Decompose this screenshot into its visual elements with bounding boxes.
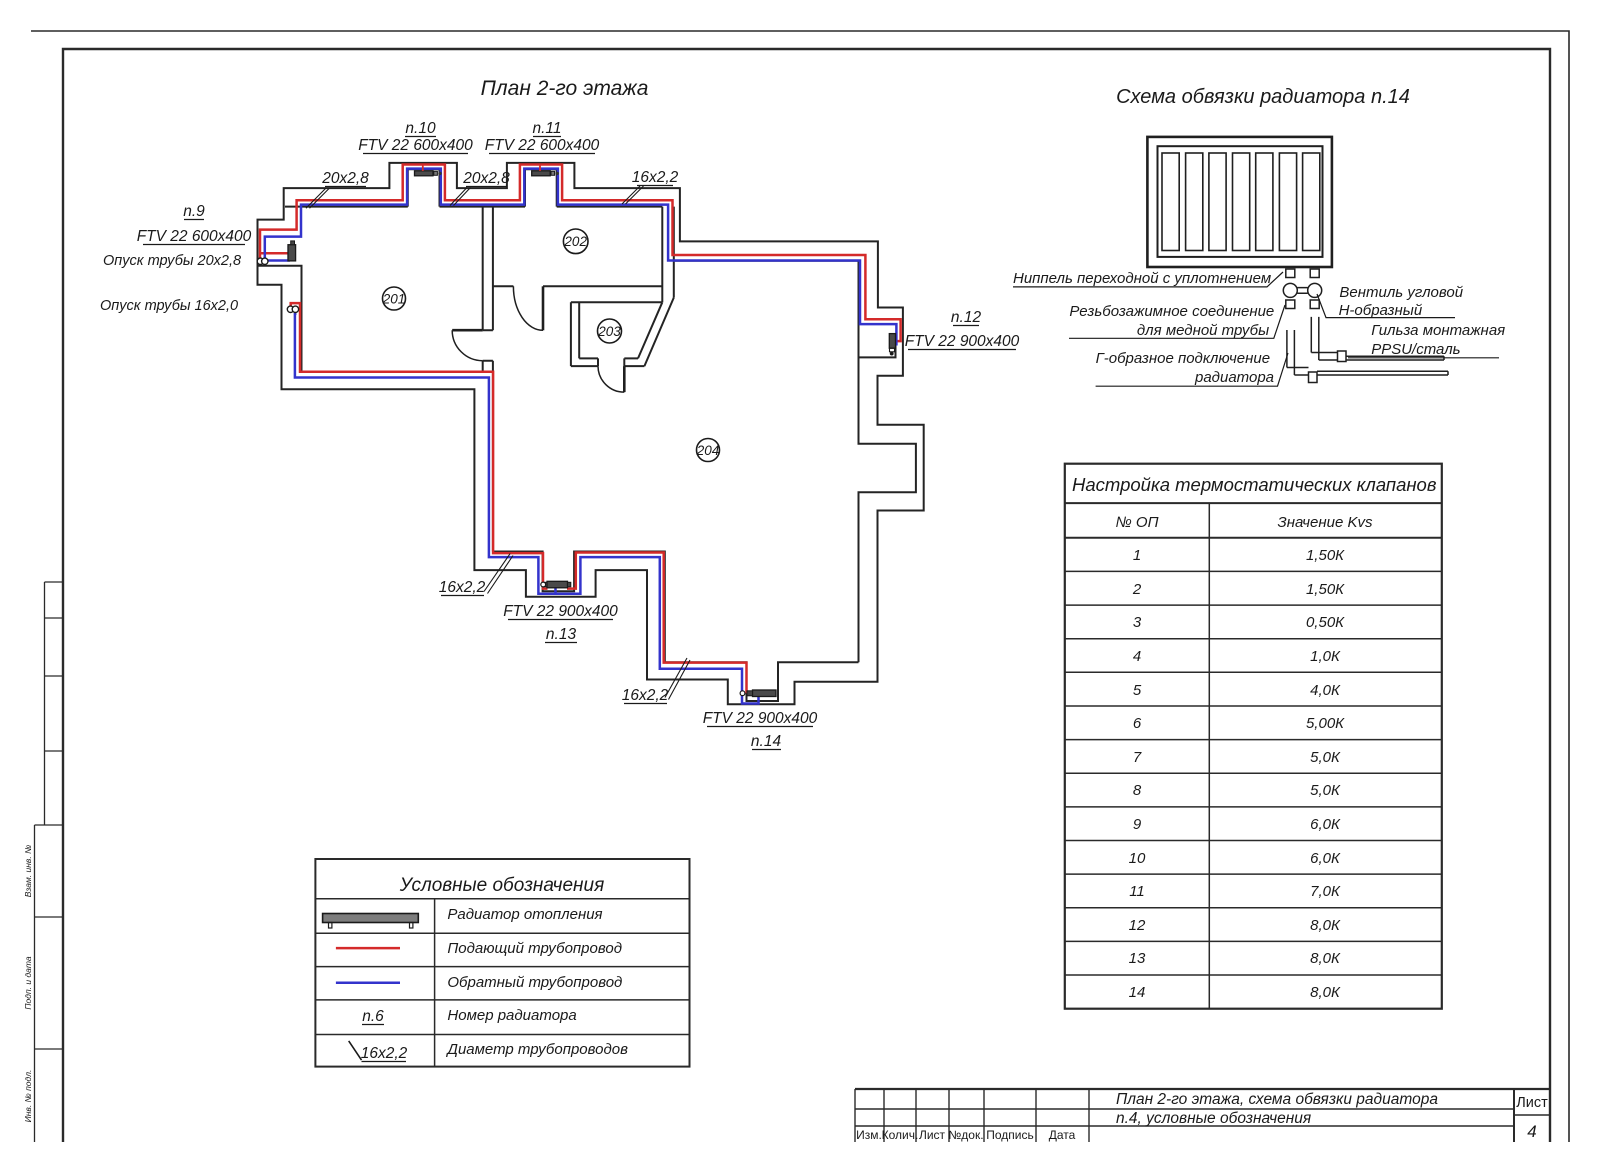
svg-text:203: 203	[597, 324, 621, 339]
svg-text:1,0К: 1,0К	[1310, 648, 1341, 665]
svg-text:8: 8	[1133, 782, 1142, 799]
svg-text:201: 201	[382, 291, 406, 306]
svg-text:204: 204	[696, 443, 720, 458]
svg-text:Номер радиатора: Номер радиатора	[447, 1007, 576, 1024]
svg-text:Инв. № подл.: Инв. № подл.	[23, 1070, 33, 1123]
svg-text:16х2,2: 16х2,2	[622, 687, 669, 704]
svg-text:6: 6	[1133, 715, 1142, 732]
svg-text:Вентиль угловой: Вентиль угловой	[1339, 284, 1463, 301]
svg-text:Опуск трубы 20х2,8: Опуск трубы 20х2,8	[103, 253, 241, 269]
svg-text:n.9: n.9	[183, 203, 205, 220]
svg-text:Взам. инв. №: Взам. инв. №	[23, 845, 33, 898]
svg-text:Колич.: Колич.	[882, 1128, 919, 1142]
svg-text:11: 11	[1129, 883, 1145, 900]
svg-text:PPSU/сталь: PPSU/сталь	[1371, 341, 1460, 358]
svg-text:FTV 22 600x400: FTV 22 600x400	[137, 228, 252, 245]
svg-text:Схема обвязки радиатора n.14: Схема обвязки радиатора n.14	[1116, 86, 1410, 108]
svg-text:Настройка термостатических кла: Настройка термостатических клапанов	[1072, 474, 1437, 495]
svg-text:n.13: n.13	[546, 626, 577, 643]
svg-text:0,50К: 0,50К	[1306, 614, 1345, 631]
svg-text:Гильза монтажная: Гильза монтажная	[1371, 322, 1505, 339]
svg-text:202: 202	[563, 234, 587, 249]
svg-text:n.12: n.12	[951, 309, 982, 326]
svg-text:Г-образное подключение: Г-образное подключение	[1096, 350, 1270, 367]
svg-text:FTV 22 900x400: FTV 22 900x400	[703, 710, 818, 727]
svg-text:радиатора: радиатора	[1194, 369, 1274, 386]
svg-text:Дата: Дата	[1049, 1128, 1076, 1142]
svg-text:Значение Kvs: Значение Kvs	[1277, 514, 1373, 531]
svg-text:n.11: n.11	[532, 120, 561, 137]
svg-text:План 2-го этажа: План 2-го этажа	[481, 77, 649, 100]
svg-text:Опуск трубы 16х2,0: Опуск трубы 16х2,0	[100, 298, 238, 314]
svg-text:Лист: Лист	[1516, 1095, 1548, 1111]
svg-text:План 2-го этажа, схема обвязки: План 2-го этажа, схема обвязки радиатора	[1116, 1091, 1438, 1108]
svg-text:5: 5	[1133, 682, 1142, 699]
svg-text:для медной трубы: для медной трубы	[1137, 322, 1269, 339]
svg-text:FTV 22 900x400: FTV 22 900x400	[503, 603, 618, 620]
svg-text:14: 14	[1129, 984, 1146, 1001]
svg-text:Подпись: Подпись	[986, 1128, 1034, 1142]
svg-text:20х2,8: 20х2,8	[321, 170, 369, 187]
svg-text:FTV 22 600x400: FTV 22 600x400	[358, 137, 473, 154]
svg-text:№док.: №док.	[948, 1128, 983, 1142]
svg-text:6,0К: 6,0К	[1310, 850, 1341, 867]
svg-text:4,0К: 4,0К	[1310, 682, 1341, 699]
svg-text:Условные обозначения: Условные обозначения	[399, 875, 604, 896]
svg-text:16х2,2: 16х2,2	[361, 1045, 408, 1062]
svg-text:1: 1	[1133, 547, 1141, 564]
svg-text:9: 9	[1133, 816, 1142, 833]
svg-text:Н-образный: Н-образный	[1339, 302, 1423, 319]
svg-text:FTV 22 900x400: FTV 22 900x400	[905, 333, 1020, 350]
svg-text:4: 4	[1133, 648, 1141, 665]
svg-text:7,0К: 7,0К	[1310, 883, 1341, 900]
svg-text:n.6: n.6	[362, 1008, 384, 1025]
svg-text:Изм.: Изм.	[856, 1128, 882, 1142]
svg-text:Обратный трубопровод: Обратный трубопровод	[447, 974, 622, 991]
svg-text:16х2,2: 16х2,2	[632, 169, 679, 186]
svg-text:1,50К: 1,50К	[1306, 547, 1345, 564]
svg-text:n.14: n.14	[751, 733, 782, 750]
svg-text:1,50К: 1,50К	[1306, 581, 1345, 598]
svg-text:Диаметр трубопроводов: Диаметр трубопроводов	[445, 1041, 628, 1058]
svg-text:Радиатор отопления: Радиатор отопления	[447, 906, 602, 923]
svg-text:5,0К: 5,0К	[1310, 749, 1341, 766]
svg-text:Подп. и дата: Подп. и дата	[23, 956, 33, 1009]
svg-text:n.4, условные обозначения: n.4, условные обозначения	[1116, 1110, 1311, 1127]
svg-text:4: 4	[1527, 1122, 1536, 1141]
svg-text:n.10: n.10	[405, 120, 436, 137]
svg-text:6,0К: 6,0К	[1310, 816, 1341, 833]
svg-text:20х2,8: 20х2,8	[462, 170, 510, 187]
svg-text:Лист: Лист	[919, 1128, 946, 1142]
svg-text:5,00К: 5,00К	[1306, 715, 1345, 732]
svg-text:8,0К: 8,0К	[1310, 984, 1341, 1001]
svg-text:8,0К: 8,0К	[1310, 917, 1341, 934]
svg-text:5,0К: 5,0К	[1310, 782, 1341, 799]
svg-text:3: 3	[1133, 614, 1142, 631]
svg-text:№ ОП: № ОП	[1116, 514, 1159, 531]
svg-text:8,0К: 8,0К	[1310, 950, 1341, 967]
svg-text:12: 12	[1129, 917, 1146, 934]
svg-text:Подающий трубопровод: Подающий трубопровод	[447, 940, 622, 957]
svg-text:2: 2	[1132, 581, 1142, 598]
svg-text:13: 13	[1129, 950, 1146, 967]
svg-text:FTV 22 600x400: FTV 22 600x400	[485, 137, 600, 154]
svg-text:Резьбозажимное соединение: Резьбозажимное соединение	[1069, 303, 1274, 320]
svg-text:10: 10	[1129, 850, 1146, 867]
svg-text:Ниппель переходной с уплотнени: Ниппель переходной с уплотнением	[1013, 270, 1271, 287]
svg-text:7: 7	[1133, 749, 1142, 766]
svg-text:16х2,2: 16х2,2	[439, 579, 486, 596]
